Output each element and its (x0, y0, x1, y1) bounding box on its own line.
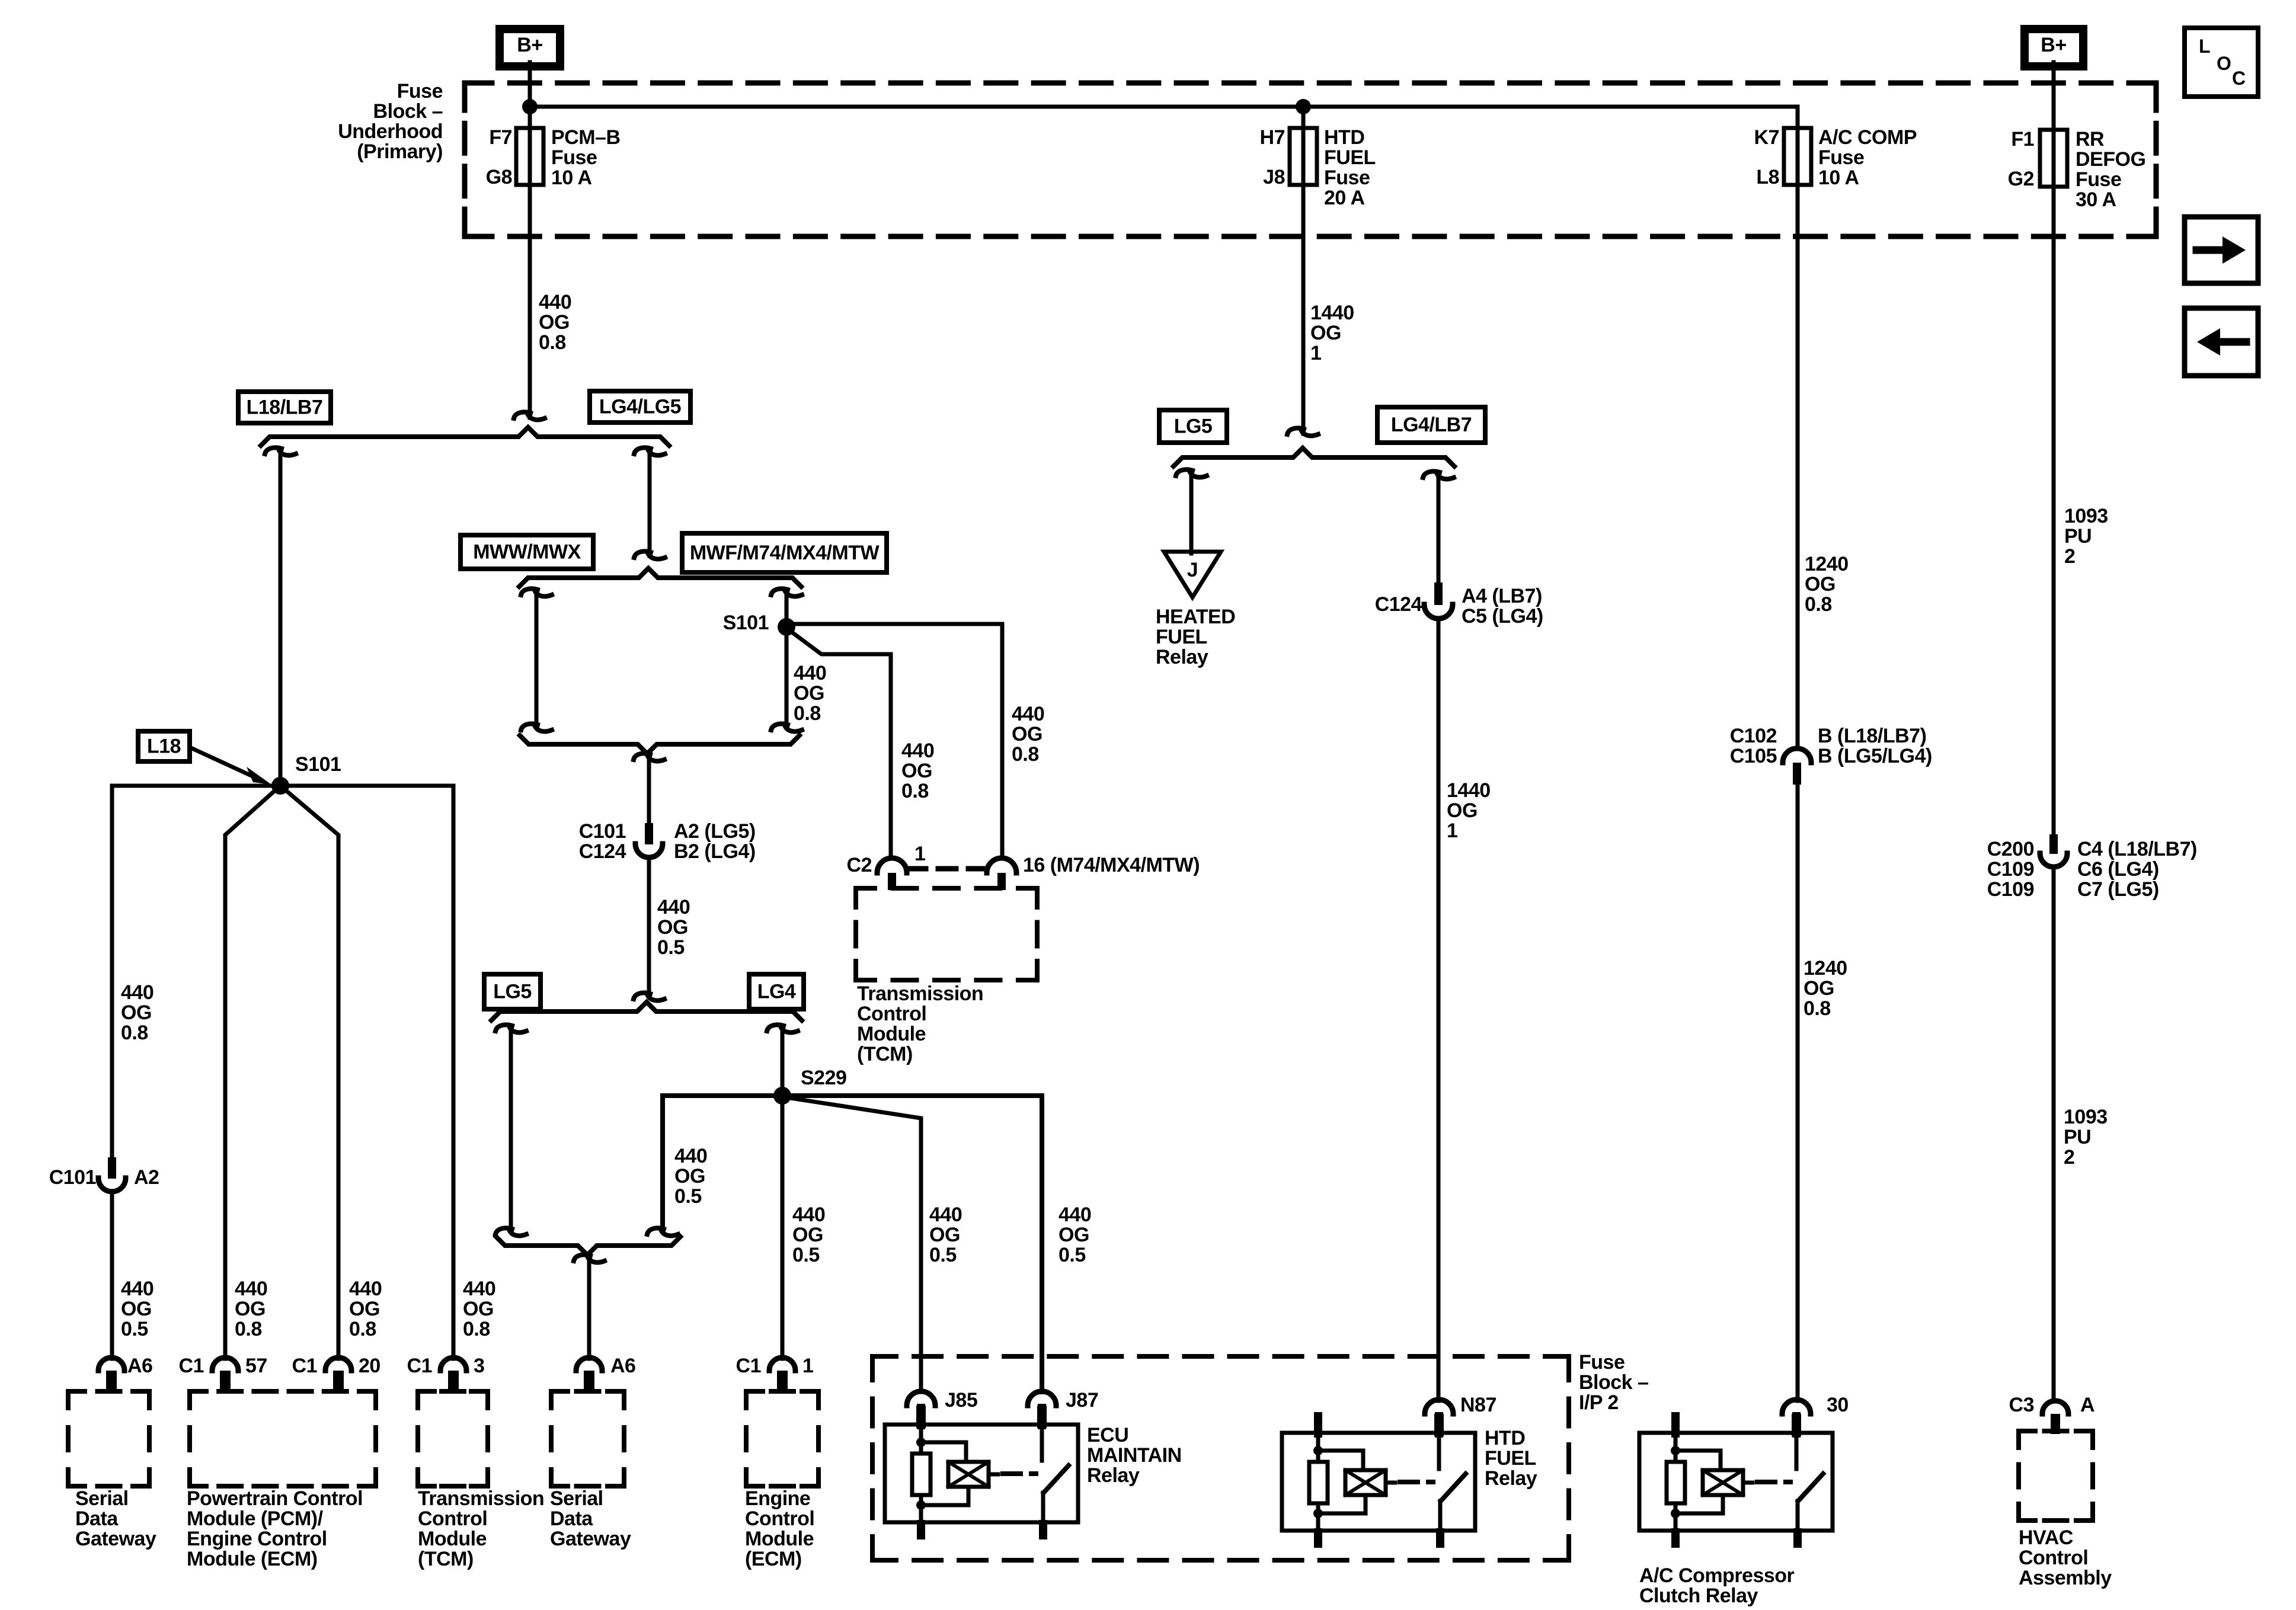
svg-text:Fuse: Fuse (2076, 168, 2121, 191)
wire to A6 gateway (587, 1262, 591, 1359)
wire S101 down (785, 627, 789, 725)
relay resistor (1309, 1462, 1328, 1503)
svg-text:LG4/LB7: LG4/LB7 (1391, 414, 1472, 436)
svg-text:C1: C1 (407, 1355, 432, 1377)
svg-text:0.8: 0.8 (794, 702, 821, 725)
svg-text:20: 20 (359, 1355, 380, 1377)
svg-text:LG4/LG5: LG4/LG5 (599, 396, 681, 418)
svg-text:J: J (1187, 559, 1198, 581)
svg-text:0.8: 0.8 (539, 331, 566, 354)
svg-text:C109: C109 (1987, 878, 2034, 901)
svg-text:1093: 1093 (2064, 1106, 2108, 1128)
merge brace to C101/C124 (520, 735, 800, 754)
split brace MWW/MWX vs MWF/M74/MX4/MTW (519, 568, 801, 587)
svg-text:C1: C1 (736, 1355, 761, 1377)
svg-text:L18: L18 (147, 735, 181, 758)
svg-text:LG4: LG4 (757, 981, 796, 1003)
wire end hook (514, 412, 530, 418)
svg-text:DEFOG: DEFOG (2076, 148, 2145, 171)
wire LG4/LG5 branch (634, 447, 651, 454)
svg-text:Module: Module (745, 1528, 814, 1550)
svg-text:L8: L8 (1756, 166, 1779, 188)
svg-text:Data: Data (550, 1507, 593, 1530)
wire S229 down to ECM (781, 1096, 785, 1359)
svg-text:(TCM): (TCM) (418, 1548, 474, 1570)
svg-text:C124: C124 (579, 840, 626, 863)
svg-text:Serial: Serial (75, 1487, 129, 1510)
svg-text:0.5: 0.5 (657, 936, 685, 959)
relay junction (1313, 1446, 1323, 1455)
wire H7 drop (1302, 107, 1306, 434)
svg-text:OG: OG (929, 1224, 960, 1246)
svg-text:Fuse: Fuse (1324, 167, 1370, 189)
fuse F1 RR DEFOG 30A (2040, 130, 2067, 187)
relay bottom stubs (917, 1520, 925, 1539)
svg-text:10 A: 10 A (1818, 167, 1859, 189)
svg-text:PU: PU (2064, 1126, 2091, 1148)
wire to C101 A2 (112, 786, 280, 1157)
svg-text:MAINTAIN: MAINTAIN (1087, 1444, 1182, 1467)
svg-text:440: 440 (349, 1278, 382, 1300)
merge brace to serial data gateway (496, 1237, 680, 1255)
net label LG4/LB7 (1377, 407, 1485, 443)
relay coil-side terminal (1314, 1412, 1322, 1438)
relay coil-side terminal (917, 1404, 925, 1429)
connector C101 pin A2 (108, 1157, 116, 1179)
svg-text:J87: J87 (1066, 1389, 1098, 1411)
svg-text:0.8: 0.8 (235, 1318, 262, 1340)
connector J87 (1028, 1391, 1056, 1406)
leader arrow to S101 (191, 748, 251, 776)
svg-text:Fuse: Fuse (1818, 146, 1864, 169)
connector pin 16 (987, 858, 1016, 873)
option dash C2-16 (908, 866, 986, 872)
svg-text:PU: PU (2064, 525, 2092, 548)
svg-text:1: 1 (1447, 820, 1457, 842)
svg-text:440: 440 (235, 1278, 267, 1300)
wire to TCM pin 3 (280, 786, 453, 1359)
svg-text:Gateway: Gateway (550, 1528, 631, 1550)
wire to PCM pin 20 (280, 786, 338, 1359)
svg-text:Gateway: Gateway (75, 1528, 156, 1550)
svg-text:57: 57 (245, 1355, 267, 1377)
relay internal wire (1674, 1433, 1678, 1462)
Serial Data Gateway 2 box (551, 1389, 568, 1394)
svg-text:OG: OG (1447, 799, 1478, 822)
svg-text:Relay: Relay (1485, 1467, 1537, 1490)
svg-text:0.5: 0.5 (674, 1185, 702, 1208)
svg-text:1: 1 (1310, 342, 1321, 364)
net label MWF/M74/MX4/MTW (682, 533, 887, 572)
coil to switch link (1386, 1481, 1395, 1485)
svg-text:Powertrain Control: Powertrain Control (187, 1487, 363, 1510)
arrow right legend box (2185, 217, 2258, 283)
svg-text:0.8: 0.8 (1012, 743, 1039, 766)
relay box (1282, 1433, 1475, 1531)
HVAC Control Assembly box (2019, 1429, 2035, 1433)
svg-text:RR: RR (2076, 128, 2104, 151)
wire 440 OG 0.5 to gateway (110, 1192, 114, 1359)
LOC legend box (2185, 28, 2258, 97)
svg-text:Control: Control (2019, 1547, 2088, 1569)
svg-text:0.5: 0.5 (792, 1244, 820, 1266)
svg-text:440: 440 (929, 1204, 962, 1226)
svg-text:FUEL: FUEL (1324, 146, 1376, 169)
svg-text:Module: Module (418, 1528, 487, 1550)
svg-text:OG: OG (235, 1298, 266, 1320)
svg-text:K7: K7 (1754, 126, 1779, 149)
svg-text:OG: OG (792, 1224, 823, 1246)
svg-text:N87: N87 (1460, 1394, 1496, 1416)
relay internal wire (1316, 1433, 1320, 1462)
svg-text:A2 (LG5): A2 (LG5) (674, 820, 756, 843)
relay resistor (1667, 1462, 1685, 1503)
wire to PCM pin 57 (225, 786, 280, 1359)
fuse K7 A/C COMP 10A (1784, 128, 1811, 185)
node at F7 (522, 99, 538, 114)
relay junction (916, 1438, 926, 1447)
svg-text:C109: C109 (1987, 858, 2034, 881)
wire (1316, 1503, 1320, 1531)
svg-text:A4 (LB7): A4 (LB7) (1462, 585, 1542, 607)
net label MWW/MWX (461, 535, 593, 569)
fuse H7 HTD FUEL 20A (1290, 128, 1317, 185)
wire 440 OG 0.5 (647, 857, 651, 994)
svg-text:OG: OG (121, 1001, 152, 1024)
svg-text:10 A: 10 A (551, 167, 592, 189)
svg-text:(TCM): (TCM) (857, 1043, 913, 1065)
svg-text:C4 (L18/LB7): C4 (L18/LB7) (2077, 838, 2197, 860)
connector C1-57 PCM (212, 1358, 238, 1371)
svg-text:OG: OG (349, 1298, 380, 1320)
connector C200/C109 pin C4/C6/C7 (2049, 834, 2058, 854)
svg-text:OG: OG (1012, 723, 1043, 745)
relay coil (1345, 1470, 1386, 1495)
wire from coil (1675, 1495, 1723, 1513)
relay coil (1703, 1470, 1743, 1495)
wire LG4 branch (767, 1025, 784, 1031)
svg-text:L: L (2199, 36, 2210, 57)
connector J85 (907, 1391, 935, 1406)
svg-text:440: 440 (657, 896, 690, 918)
svg-text:440: 440 (1012, 703, 1044, 725)
arrow left legend box (2185, 308, 2258, 376)
svg-text:440: 440 (794, 662, 826, 684)
svg-text:1093: 1093 (2064, 505, 2108, 527)
svg-text:Fuse: Fuse (1579, 1351, 1625, 1374)
wire to C101/C124 (647, 761, 651, 823)
svg-text:A/C COMP: A/C COMP (1818, 126, 1917, 149)
net label LG5 (1159, 410, 1227, 443)
svg-text:1440: 1440 (1447, 779, 1491, 802)
svg-text:C101: C101 (579, 820, 626, 843)
relay coil-side terminal (1671, 1412, 1680, 1438)
svg-text:(Primary): (Primary) (357, 140, 443, 163)
relay switch (1040, 1425, 1044, 1461)
svg-text:S229: S229 (801, 1067, 846, 1089)
svg-text:Fuse: Fuse (397, 80, 443, 103)
svg-text:Relay: Relay (1087, 1464, 1140, 1487)
relay junction (1313, 1509, 1323, 1518)
ground symbol J heated fuel relay (1164, 552, 1221, 597)
connector A6 gateway 2 (576, 1358, 602, 1371)
svg-text:1440: 1440 (1310, 302, 1354, 324)
svg-text:Engine Control: Engine Control (187, 1528, 327, 1550)
wire B+ right stem (2052, 62, 2056, 834)
splice S101 (engine harness) (778, 618, 795, 636)
svg-text:30: 30 (1827, 1394, 1849, 1416)
svg-text:S101: S101 (723, 612, 769, 634)
relay bottom stubs (1671, 1528, 1680, 1548)
svg-text:L18/LB7: L18/LB7 (247, 396, 323, 419)
svg-text:2: 2 (2064, 545, 2075, 568)
svg-text:B+: B+ (517, 34, 542, 56)
connector C124 pin A4/C5 (1434, 582, 1443, 605)
svg-text:F1: F1 (2011, 128, 2034, 151)
svg-text:F7: F7 (489, 126, 512, 149)
svg-text:440: 440 (539, 291, 571, 313)
svg-text:J85: J85 (945, 1389, 977, 1411)
net label LG4/LG5 (590, 391, 690, 422)
svg-text:Transmission: Transmission (857, 982, 983, 1005)
svg-text:Clutch Relay: Clutch Relay (1639, 1585, 1758, 1607)
svg-text:1240: 1240 (1803, 957, 1847, 980)
svg-text:A6: A6 (127, 1355, 152, 1377)
svg-text:OG: OG (463, 1298, 494, 1320)
coil to switch link (989, 1473, 998, 1477)
power feed B+ (left) (495, 25, 564, 71)
svg-text:Module (ECM): Module (ECM) (187, 1548, 318, 1570)
svg-text:440: 440 (674, 1145, 707, 1167)
svg-text:O: O (2217, 53, 2231, 74)
svg-text:2: 2 (2064, 1146, 2074, 1169)
svg-text:OG: OG (1805, 573, 1835, 596)
Fuse Block I/P 2 dashed box (872, 1354, 896, 1359)
power feed B+ (right) (2020, 25, 2087, 71)
svg-text:0.8: 0.8 (1805, 593, 1832, 616)
svg-text:440: 440 (121, 981, 154, 1004)
svg-text:G2: G2 (2008, 168, 2034, 190)
wire from coil (1318, 1495, 1366, 1513)
relay internal wire (919, 1425, 923, 1454)
svg-text:1: 1 (802, 1355, 813, 1377)
svg-text:C5 (LG4): C5 (LG4) (1462, 605, 1543, 628)
net label LG4 (749, 974, 804, 1009)
relay coil (948, 1462, 989, 1487)
net label L18 (138, 731, 190, 761)
connector C101/C124 pin A2/B2 (645, 823, 653, 844)
coil to switch link (1743, 1481, 1753, 1485)
svg-text:OG: OG (1803, 977, 1834, 1000)
svg-text:J8: J8 (1263, 166, 1285, 188)
connector C2 pin 1 (877, 858, 907, 873)
svg-text:C7 (LG5): C7 (LG5) (2077, 878, 2159, 901)
svg-text:30 A: 30 A (2076, 188, 2116, 211)
svg-text:C3: C3 (2009, 1394, 2034, 1416)
PCM/ECM box (190, 1389, 206, 1394)
svg-text:C105: C105 (1730, 745, 1777, 767)
connector C3 pin A (2042, 1401, 2068, 1414)
svg-text:S101: S101 (295, 753, 341, 776)
svg-text:0.5: 0.5 (929, 1244, 957, 1266)
svg-text:0.5: 0.5 (1059, 1244, 1086, 1266)
svg-text:OG: OG (1310, 322, 1341, 344)
svg-text:C6 (LG4): C6 (LG4) (2077, 858, 2159, 881)
relay switch-side terminal (1792, 1412, 1801, 1438)
svg-text:Block –: Block – (373, 100, 443, 123)
relay resistor (912, 1454, 930, 1495)
wire LG5 branch (495, 1025, 512, 1031)
svg-text:HTD: HTD (1324, 126, 1364, 149)
connector C1-3 TCM (440, 1358, 466, 1371)
connector A6 serial data gateway (98, 1358, 124, 1371)
relay switch-side terminal (1435, 1412, 1443, 1438)
relay bottom stubs (1314, 1528, 1322, 1548)
svg-text:B (LG5/LG4): B (LG5/LG4) (1818, 745, 1932, 767)
svg-text:0.8: 0.8 (1803, 997, 1831, 1020)
svg-text:1: 1 (914, 843, 925, 865)
wire LG4/LB7 branch to C124 (1423, 471, 1440, 478)
wire from coil (921, 1487, 968, 1505)
wire to heated fuel relay (1176, 469, 1192, 476)
svg-text:440: 440 (1059, 1204, 1091, 1226)
svg-text:Module: Module (857, 1023, 926, 1045)
svg-text:440: 440 (792, 1204, 825, 1226)
svg-text:OG: OG (674, 1165, 705, 1188)
svg-text:B2 (LG4): B2 (LG4) (674, 840, 756, 863)
svg-text:HEATED: HEATED (1156, 606, 1235, 628)
svg-text:440: 440 (463, 1278, 495, 1300)
svg-text:1240: 1240 (1805, 553, 1849, 575)
wire below C102 (1796, 783, 1800, 1401)
svg-text:C2: C2 (847, 854, 872, 876)
svg-text:20 A: 20 A (1324, 187, 1365, 209)
svg-text:C1: C1 (292, 1355, 317, 1377)
svg-text:OG: OG (901, 760, 932, 782)
relay junction (1671, 1446, 1680, 1455)
relay switch (1795, 1433, 1799, 1469)
relay box (885, 1425, 1078, 1522)
svg-text:HTD: HTD (1485, 1427, 1525, 1449)
svg-text:0.8: 0.8 (901, 780, 929, 802)
wire S101 to TCM C2-1 (786, 628, 891, 859)
wire K7 drop (1796, 107, 1798, 749)
wire B+ left stem (528, 62, 532, 418)
svg-text:Relay: Relay (1156, 646, 1208, 668)
svg-text:MWF/M74/MX4/MTW: MWF/M74/MX4/MTW (690, 542, 880, 564)
connector N87 (1425, 1400, 1453, 1414)
split brace LG5 vs LG4 (491, 1002, 802, 1020)
wire to coil (1675, 1451, 1721, 1470)
splice S101 (left) (271, 777, 289, 795)
svg-text:LG5: LG5 (1174, 415, 1213, 438)
svg-text:G8: G8 (486, 166, 512, 188)
svg-text:OG: OG (657, 916, 688, 939)
svg-text:OG: OG (1059, 1224, 1089, 1246)
svg-text:OG: OG (539, 311, 570, 334)
wire S229 to J87 (782, 1096, 1042, 1392)
wire (1674, 1503, 1678, 1531)
svg-text:440: 440 (121, 1278, 154, 1300)
svg-text:Control: Control (857, 1003, 926, 1025)
svg-text:16 (M74/MX4/MTW): 16 (M74/MX4/MTW) (1023, 854, 1200, 876)
connector 30 (1782, 1400, 1811, 1414)
wire 1093 PU 2 (2052, 867, 2056, 1401)
wire MWW branch (521, 588, 538, 595)
svg-text:C200: C200 (1987, 838, 2034, 860)
fuse F7 PCM-B 10A (516, 128, 543, 185)
svg-text:FUEL: FUEL (1485, 1447, 1536, 1470)
svg-text:OG: OG (794, 682, 824, 705)
svg-text:A6: A6 (610, 1355, 635, 1377)
relay switch-side terminal (1038, 1404, 1046, 1429)
TCM box (418, 1389, 434, 1394)
svg-text:I/P 2: I/P 2 (1579, 1391, 1619, 1414)
svg-text:ECU: ECU (1087, 1424, 1128, 1446)
wire to coil (921, 1442, 966, 1462)
svg-text:H7: H7 (1260, 126, 1285, 149)
svg-text:HVAC: HVAC (2019, 1526, 2073, 1549)
svg-text:C101: C101 (49, 1166, 96, 1189)
svg-text:Underhood: Underhood (338, 120, 443, 143)
svg-text:Engine: Engine (745, 1487, 810, 1510)
Fuse Block - Underhood (Primary) dashed box (465, 81, 492, 86)
splice S229 (773, 1087, 791, 1105)
connector C1-1 ECM (769, 1358, 795, 1371)
bus wire inside fuse block (527, 105, 1798, 109)
svg-text:Fuse: Fuse (551, 146, 597, 169)
net label LG5 (484, 974, 541, 1009)
svg-text:A/C Compressor: A/C Compressor (1639, 1564, 1795, 1587)
relay junction (916, 1500, 926, 1510)
svg-text:0.8: 0.8 (349, 1318, 376, 1340)
svg-text:(ECM): (ECM) (745, 1548, 802, 1570)
svg-text:0.5: 0.5 (121, 1318, 148, 1340)
wire S229 left leg (663, 1096, 782, 1228)
wire S101 to TCM 16 (786, 624, 1002, 859)
relay box (1639, 1433, 1833, 1531)
svg-text:Control: Control (745, 1507, 814, 1530)
svg-text:A2: A2 (134, 1166, 159, 1189)
svg-text:MWW/MWX: MWW/MWX (473, 541, 581, 564)
wire S229 to J85 (782, 1097, 921, 1392)
svg-text:FUEL: FUEL (1156, 626, 1207, 648)
svg-text:OG: OG (121, 1298, 152, 1320)
split brace LG5 vs LG4/LB7 (1173, 448, 1454, 466)
wire MWF branch (771, 588, 788, 595)
svg-text:Serial: Serial (550, 1487, 603, 1510)
svg-text:B (L18/LB7): B (L18/LB7) (1818, 725, 1926, 747)
Transmission Control Module dashed box (856, 886, 875, 891)
connector C102/C105 pin B (1783, 748, 1811, 763)
svg-text:B+: B+ (2041, 34, 2066, 56)
svg-text:Module (PCM)/: Module (PCM)/ (187, 1507, 324, 1530)
svg-text:Data: Data (75, 1507, 119, 1530)
svg-text:Assembly: Assembly (2019, 1567, 2112, 1589)
node at H7 (1296, 99, 1311, 114)
svg-text:PCM–B: PCM–B (551, 126, 621, 149)
svg-text:0.8: 0.8 (121, 1022, 148, 1044)
svg-text:Control: Control (418, 1507, 487, 1530)
wire 1440 OG 1 to N87 (1437, 619, 1441, 1401)
svg-text:Block –: Block – (1579, 1371, 1648, 1394)
svg-text:C: C (2232, 68, 2246, 89)
ECM box (746, 1389, 763, 1394)
relay junction (1671, 1509, 1680, 1518)
relay switch (1437, 1433, 1441, 1469)
Serial Data Gateway box (68, 1389, 85, 1394)
svg-text:C1: C1 (179, 1355, 204, 1377)
